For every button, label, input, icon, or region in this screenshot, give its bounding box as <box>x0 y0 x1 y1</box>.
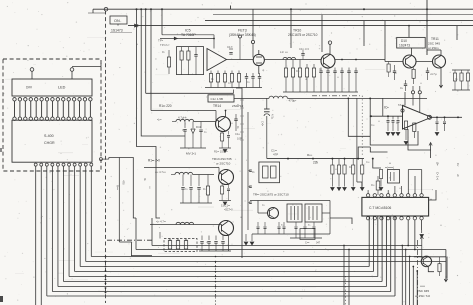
wire mv bias branch <box>109 158 136 219</box>
node IC6 output circle <box>428 115 432 119</box>
wire op-amp feed vertical <box>162 34 214 36</box>
wire branch to bottom edge <box>416 271 418 305</box>
node junction dot on top bus <box>145 8 147 10</box>
right side bias parts <box>453 73 456 81</box>
capacitor C31 <box>393 70 396 72</box>
svg-text:TR10: TR10 <box>293 29 301 33</box>
wire right cluster rail <box>452 69 470 71</box>
svg-text:•L• 4.7•••: •L• 4.7••• <box>155 170 166 174</box>
wire IC6 output rail <box>432 116 463 118</box>
diode D10 box <box>397 37 426 48</box>
svg-text:C•: C• <box>456 163 460 166</box>
scan artifact bottom left <box>0 296 3 302</box>
svg-text:••: •• <box>420 82 422 85</box>
svg-text:D10: D10 <box>401 39 407 43</box>
wire vertical feed x385 <box>384 21 386 62</box>
svg-text:MV 2•1: MV 2•1 <box>186 152 196 156</box>
capacitor C131 at output <box>444 117 446 121</box>
capacitor C130 at output <box>436 117 438 121</box>
wire display pin 8 to bus line 4 <box>74 166 76 272</box>
svg-text:C• 3.•): C• 3.•) <box>436 172 440 180</box>
capacitor C33 <box>404 83 407 85</box>
wire feeder to PLL left <box>357 182 362 190</box>
wire TR12 collector to D10 <box>411 48 413 56</box>
svg-text:R•: R• <box>211 78 214 81</box>
capacitor C104 4.7u <box>266 98 268 109</box>
svg-text:R•: R• <box>349 166 352 169</box>
svg-text:R•: R• <box>162 51 165 54</box>
svg-text:••: •• <box>399 187 401 190</box>
wire feeder x242 <box>241 95 243 258</box>
resistor R5x vertical <box>379 170 382 179</box>
svg-text:TR11: TR11 <box>431 37 439 41</box>
svg-text:M•: M• <box>143 178 146 181</box>
trimmer box RIT <box>388 170 400 184</box>
capacitor C32 4.7u <box>426 70 429 72</box>
wire top supply bus line 3 <box>205 20 473 22</box>
wire ground rail under IC5 <box>205 87 262 89</box>
svg-text:470µ•: 470µ• <box>289 98 297 102</box>
capacitor C115 <box>200 122 202 129</box>
svg-text:C•: C• <box>396 122 399 125</box>
op-amp U-IC6 triangle <box>403 106 432 130</box>
wire link from display to bus <box>72 66 101 68</box>
svg-text:R•: R• <box>394 72 397 75</box>
wire vertical through bus to TR11 <box>426 0 428 55</box>
wire bus line 7 horizontal run <box>58 286 386 288</box>
arrow supply TR11 emitter <box>440 68 442 83</box>
svg-text:•p: •p <box>262 69 265 72</box>
wire from ON box to diode <box>117 24 119 26</box>
wire bus line 4 horizontal run <box>75 271 374 273</box>
svg-text:R•••: R••• <box>307 153 312 157</box>
small matching box <box>300 229 315 240</box>
op-amp U-IC5 triangle <box>207 49 227 71</box>
svg-text:••: •• <box>440 224 442 227</box>
svg-text:••: •• <box>240 216 242 219</box>
dotted divider near x362 <box>361 96 363 157</box>
node IC6 inverting circle <box>401 109 404 112</box>
wire IC6 input rail <box>370 115 403 117</box>
transistor TR11 circle <box>433 55 446 68</box>
svg-text:47P: 47P <box>273 153 278 157</box>
wire bus line 8 rise to PLL pin <box>390 217 392 292</box>
svg-text:R•: R• <box>236 126 239 129</box>
svg-text:TR•• 2SC1675 or 2SC710: TR•• 2SC1675 or 2SC710 <box>253 193 289 197</box>
wire bus line 6 horizontal run <box>64 281 383 283</box>
node junction dot on top bus <box>140 8 142 10</box>
node junction dot on top bus <box>136 8 138 10</box>
capacitor C12x <box>301 53 304 55</box>
wire bus line 3 horizontal run <box>80 266 369 268</box>
dash-dot frame right <box>417 240 419 305</box>
svg-text:4.7µ: 4.7µ <box>271 114 275 120</box>
dashed matching box with resistors <box>164 239 197 252</box>
wire top supply bus line 4 <box>128 25 473 27</box>
dash-dot reference line bottom center <box>107 239 154 241</box>
wire display pin 10 to bus line 2 <box>85 166 87 262</box>
connector comb between LED and driver <box>13 98 16 101</box>
side label column C11A <box>240 99 244 101</box>
svg-text:C.T MC•45106: C.T MC•45106 <box>369 206 391 210</box>
wire PLL pin feeds from top <box>367 190 369 194</box>
transformer T2 box <box>305 204 322 222</box>
svg-text:TR13 2SC735: TR13 2SC735 <box>212 157 232 161</box>
transistor TR15 circle <box>219 221 234 236</box>
svg-text:L1¹ •••: L1¹ ••• <box>280 50 288 54</box>
wire feed to D10 <box>408 26 410 38</box>
capacitor C116 <box>184 122 186 129</box>
wire center cluster to rail <box>159 232 161 239</box>
wire feeder x248 <box>247 112 249 230</box>
wire TR13 base rail <box>144 167 219 169</box>
wire bus line 6 rise to PLL pin <box>381 217 383 282</box>
diode D9 on bus line 4 <box>135 24 138 27</box>
svg-text:R•: R• <box>203 188 206 191</box>
inductor L12 470u <box>269 96 287 98</box>
diode D41 varactor <box>192 122 194 129</box>
capacitor C117 on TR14 <box>234 118 237 120</box>
svg-text:R•: R• <box>252 171 255 174</box>
svg-text:2SC1675 or 2SC710: 2SC1675 or 2SC710 <box>288 33 318 37</box>
wire bus line 4 rise to PLL pin <box>373 217 375 272</box>
wire display pin 2 down to bottom edge <box>40 166 42 305</box>
wire stub bottom right <box>418 256 422 258</box>
node feed terminals above IC6 <box>411 91 414 94</box>
wire display pin 3 to bus line 9 <box>46 166 48 296</box>
capacitor C112 series <box>229 52 232 54</box>
wire rail 2 drop at right <box>445 250 447 257</box>
resistor R emitter TR14 <box>221 133 224 141</box>
wire bus line 1 drop at right <box>446 257 448 279</box>
svg-text:C•••: C••• <box>305 242 310 245</box>
svg-text:LED: LED <box>58 86 66 90</box>
wire crystal to coil <box>234 97 269 99</box>
svg-text:TP²•²¹•³: TP²•²¹•³ <box>160 43 169 47</box>
supply branch +B arrow <box>430 143 432 158</box>
wire TR9 bottom rail <box>252 233 330 235</box>
wire TR12 base <box>385 61 403 63</box>
node junction dot on top bus <box>150 8 152 10</box>
connector pin row under driver <box>34 163 37 166</box>
svg-text:C1••: C1•• <box>235 132 240 136</box>
wire varactor ground rail <box>180 147 206 149</box>
wire TRx1 collector <box>427 255 429 257</box>
svg-text:or 2SC 7•0: or 2SC 7•0 <box>415 294 430 298</box>
wire TRx1 emitter <box>428 267 434 272</box>
svg-text:1SC1••: 1SC1•• <box>221 204 230 208</box>
svg-text:(3SK40 or 3SK44): (3SK40 or 3SK44) <box>229 33 256 37</box>
wire stair 2 <box>141 9 185 136</box>
svg-text:••: •• <box>337 76 339 79</box>
inductor L14 4.7uH <box>175 172 193 174</box>
crystal filter C11-1.5B box <box>208 95 234 102</box>
svg-text:C•: C• <box>228 82 231 85</box>
wire TR14 base rail <box>151 110 216 112</box>
wire top supply bus line 1 <box>93 8 473 10</box>
wire top supply bus line 2 <box>213 14 473 16</box>
resistor small near x388 <box>387 64 390 72</box>
wire feed left of TR10 <box>290 48 292 59</box>
resistor R31 <box>412 69 415 78</box>
svg-text:1S1473: 1S1473 <box>111 28 123 32</box>
svg-text:•••••: ••••• <box>420 284 425 288</box>
svg-text:22k: 22k <box>313 161 319 165</box>
wire branch to bottom edge <box>412 267 414 305</box>
svg-text:or 2SC710: or 2SC710 <box>216 161 231 165</box>
wire center drop join <box>135 218 137 239</box>
transistor TR14 circle <box>216 117 231 132</box>
svg-text:C•: C• <box>319 68 322 71</box>
svg-text:••: •• <box>206 241 208 244</box>
node junction dot on top bus <box>426 8 428 10</box>
capacitor C emitter TR13 <box>228 184 230 188</box>
svg-text:IC•: IC• <box>384 106 389 110</box>
svg-text:or 2SC•: or 2SC• <box>428 46 439 50</box>
wire display pin 7 to bus line 5 <box>68 166 70 277</box>
wire stair 1 from bus down to TR15 <box>137 9 161 218</box>
wire feeder x348 <box>348 98 370 136</box>
transistor TRx1 circle <box>421 256 431 266</box>
wire drop to rail 2 <box>135 239 137 250</box>
dash-dot section divider horizontal <box>312 95 362 97</box>
resistor R117 470 vertical wire <box>118 158 120 243</box>
wire branch to bottom edge <box>409 257 411 305</box>
wire IC6 out down <box>408 129 431 150</box>
capacitor row under FET3 <box>245 76 248 78</box>
inductor L15 <box>176 222 194 224</box>
transistor TR13 circle <box>219 170 234 185</box>
wire coil to right column <box>288 97 428 99</box>
transistor TR10 circle <box>321 54 335 68</box>
wire emitter ground rail TR14 <box>219 147 231 149</box>
wire bottom rail 2 <box>136 249 446 251</box>
passive network under TR10 <box>284 68 287 77</box>
switch S1 ON box <box>110 16 127 24</box>
svg-text:•: • <box>352 228 353 231</box>
svg-text:C•: C• <box>262 204 265 207</box>
inductor L11 <box>283 57 296 59</box>
svg-text:•4.7µ: •4.7µ <box>430 72 437 76</box>
svg-text:C•: C• <box>236 104 239 107</box>
svg-text:2SC 945: 2SC 945 <box>428 41 440 45</box>
svg-text:R••: R•• <box>296 70 300 73</box>
svg-text:047: 047 <box>316 242 321 245</box>
svg-text:(9•: (9• <box>436 162 440 165</box>
resistor R140 above PLL <box>376 181 380 190</box>
wire cluster bottom rail 2 <box>290 237 322 239</box>
svg-text:•k: •k <box>305 78 308 81</box>
wire emitter ground rail TR13 <box>219 200 231 202</box>
wire display pin 5 to bus line 7 <box>57 166 59 287</box>
svg-text:C•: C• <box>455 78 458 81</box>
wire drop from center cluster to rail 1 <box>151 218 153 246</box>
wire feeder x242 top bend <box>236 88 242 95</box>
feedback parts IC6 <box>387 116 389 119</box>
node junction <box>213 38 215 40</box>
wire display pin 1 down to bottom edge <box>35 166 37 305</box>
svg-text:C•: C• <box>204 131 207 134</box>
wire feed to TR10 collector <box>290 9 292 48</box>
wire branch to bottom edge <box>401 246 403 305</box>
svg-text:D##: D## <box>26 86 32 90</box>
svg-text:•L• 4.7••: •L• 4.7•• <box>156 220 166 224</box>
transformer T1 box <box>287 204 302 222</box>
FET Q-FET3 circle <box>253 54 264 65</box>
svg-text:••: •• <box>430 198 432 201</box>
wire mixer rail y93 <box>146 92 234 94</box>
svg-text:•: • <box>436 154 437 157</box>
wire ground rail under TR10 <box>283 91 358 93</box>
svg-text:1S2473: 1S2473 <box>399 44 410 48</box>
resistor on TP wire <box>167 57 170 67</box>
dash-dot tick bottom <box>345 276 347 305</box>
wire bus line 9 rise to PLL pin <box>394 217 396 297</box>
svg-text:IC5: IC5 <box>185 29 191 33</box>
ground stub PLL <box>421 230 423 233</box>
svg-text:R1•• 2•0: R1•• 2•0 <box>148 159 160 163</box>
wire bus line 7 rise to PLL pin <box>385 217 387 287</box>
svg-text:••: •• <box>378 120 380 123</box>
svg-text:•: • <box>246 159 247 162</box>
inductor L13 4.7uH <box>176 119 194 121</box>
wire TRx1 vertical feed <box>421 237 423 258</box>
wire TR15 collector down <box>228 235 230 251</box>
wire feed near TR12 <box>363 21 365 46</box>
svg-text:C1³²: C1³² <box>227 45 233 49</box>
wire TR9 right link <box>322 212 330 214</box>
wire TR9 top rail <box>250 200 330 202</box>
wire TR14 collector <box>225 111 227 118</box>
display LED box <box>12 79 92 96</box>
wire TR9 rail drop with grounds <box>251 234 253 241</box>
resistor network under op-amp <box>209 74 212 83</box>
PLL IC CT MC145106 box <box>362 197 429 216</box>
dashed control net vertical wire <box>105 11 107 304</box>
node FET3 gate terminal <box>251 40 254 43</box>
svg-text:C•: C• <box>400 86 403 90</box>
wire FET3 source down <box>258 66 260 74</box>
svg-text:S-400: S-400 <box>44 134 54 138</box>
svg-text:C•0•: C•0• <box>261 121 265 126</box>
dashed enclosure display unit <box>3 59 101 171</box>
svg-text:••: •• <box>335 168 337 171</box>
wire bus line 5 horizontal run <box>69 276 378 278</box>
resistor R22 vertical <box>187 51 190 60</box>
node junction on bus line 1 <box>104 7 108 11</box>
wire bus line 2 horizontal run <box>86 261 446 263</box>
wire RIT feeds <box>407 170 409 194</box>
wire TR15 base rail <box>150 224 219 226</box>
wire top link <box>370 147 387 152</box>
svg-text:R•••: R••• <box>116 185 120 190</box>
wire PLL right top bend <box>429 190 436 200</box>
capacitor C21 vertical <box>194 54 197 56</box>
node junction IC6 rail <box>370 115 372 117</box>
wire feed right edge <box>456 26 458 40</box>
diode D11 on input wire <box>174 37 177 40</box>
wire join to rails <box>119 242 152 256</box>
svg-text:TA 7318P: TA 7318P <box>181 33 196 37</box>
svg-text:•0: •0 <box>456 174 460 177</box>
svg-text:C•: C• <box>185 188 188 191</box>
PLL top pin stubs <box>367 196 369 199</box>
wire branch to R5x <box>373 159 381 168</box>
resistor R emitter TR13 <box>221 186 224 194</box>
resistor R116 <box>206 186 209 195</box>
wire bus line 1 horizontal run <box>91 256 422 258</box>
wire TR9 base <box>258 212 268 214</box>
svg-text:470: 470 <box>122 180 126 185</box>
wire link to PLL <box>330 218 352 224</box>
wire bus line 2 drop at right <box>446 261 448 263</box>
svg-text:•SC7•0: •SC7•0 <box>224 208 233 212</box>
svg-text:TR14: TR14 <box>213 104 221 108</box>
node terminal circle A <box>30 68 34 72</box>
PLL bottom pin row <box>366 217 369 220</box>
capacitor row under TR15 <box>201 236 203 241</box>
IC5 input network box <box>177 47 204 75</box>
svg-text:2SC 945: 2SC 945 <box>417 289 429 293</box>
svg-text:••(•••••): ••(•••••) <box>385 165 394 169</box>
wire between TR12 TR11 <box>416 61 433 63</box>
wire feeder x357 <box>356 98 358 182</box>
resistor R130 under op-amp <box>404 121 407 130</box>
wire bottom cluster rail <box>199 250 231 252</box>
node terminal circle B <box>70 68 74 72</box>
wire TR10 collector up <box>329 44 331 54</box>
wire feed to FET3 drain <box>252 9 254 40</box>
resistor R150 <box>438 264 441 272</box>
svg-text:R••: R•• <box>371 184 375 187</box>
wire display pin 11 to bus line 1 <box>90 166 92 257</box>
wire stair 3 <box>150 9 152 110</box>
node small circle on block side <box>99 158 102 161</box>
wire IF rail 158 <box>267 158 364 160</box>
capacitor C emitter TR14 <box>228 131 230 135</box>
wire long drop x349 <box>348 250 350 305</box>
svg-text:T•: T• <box>281 224 283 227</box>
wire display pin 6 to bus line 6 <box>63 166 65 282</box>
svg-text:C••: C•• <box>366 161 370 164</box>
PLL top pin row <box>366 194 369 197</box>
node terminal C112 top <box>239 35 242 38</box>
svg-text:R1•• 220: R1•• 220 <box>159 104 172 108</box>
node dots on IF rail <box>287 158 289 160</box>
wire IC6 frame <box>370 98 418 145</box>
dash-dot reference line vertical <box>215 262 217 305</box>
node junction dot on top bus <box>290 8 292 10</box>
svg-text:CHGR: CHGR <box>44 141 55 145</box>
wire bottom rail 1 <box>152 245 422 247</box>
wire feed to IC5 block <box>161 9 163 35</box>
svg-text:C1•¹ 1.5B: C1•¹ 1.5B <box>211 97 223 101</box>
shunt network under IF rail <box>331 159 333 165</box>
transistor TR12 circle <box>403 55 416 68</box>
node junction dot on top bus <box>161 8 163 10</box>
node junction dot on top bus <box>363 8 365 10</box>
capacitor row under TR9 <box>257 222 259 226</box>
svg-text:4.7µH•: 4.7µH• <box>178 116 187 120</box>
wire feed to TR10 network <box>321 15 323 52</box>
capacitor stubs on feeder <box>249 169 252 171</box>
capacitor network under TR13 <box>182 175 184 187</box>
wire RF rail <box>265 59 322 61</box>
wire top rail TR output <box>414 256 446 258</box>
svg-text:T•: T• <box>308 224 310 227</box>
node terminal above TR10 <box>328 41 331 44</box>
wire hook on bus line 1 <box>230 6 232 10</box>
